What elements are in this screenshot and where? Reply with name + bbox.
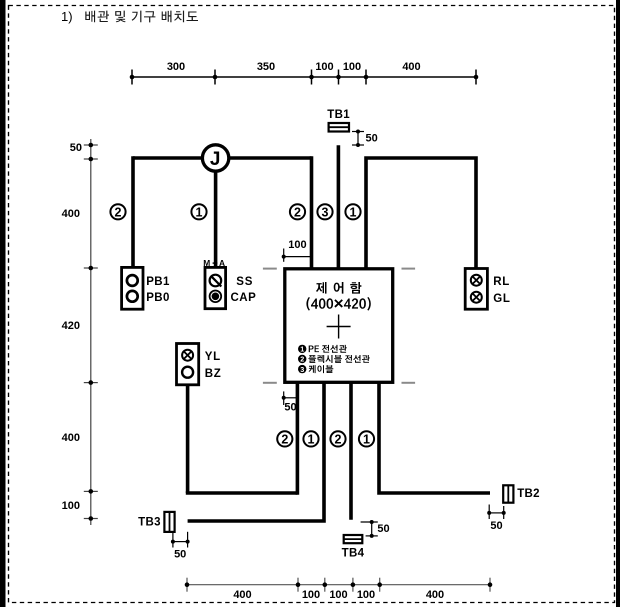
svg-text:SS: SS [236, 276, 253, 288]
svg-text:100: 100 [343, 61, 361, 73]
svg-text:50: 50 [366, 133, 378, 145]
terminal block TB4 [344, 535, 363, 543]
wire right conduit from box up and to RL box [366, 158, 476, 269]
svg-text:100: 100 [288, 239, 306, 251]
label TB4 [342, 548, 365, 560]
svg-text:100: 100 [329, 589, 347, 601]
svg-text:50: 50 [284, 402, 296, 414]
svg-text:1: 1 [363, 432, 370, 446]
svg-text:50: 50 [70, 142, 82, 154]
label BZ [205, 368, 222, 380]
wire conduit 2 from control box bottom to TB4 [349, 382, 353, 520]
svg-text:M: M [203, 258, 210, 268]
control box 제어함 [285, 269, 393, 383]
svg-text:2: 2 [335, 432, 342, 446]
svg-text:300: 300 [167, 61, 185, 73]
conduit label 2 (bottom wire to TB4) [330, 431, 345, 446]
dimension 50 at TB3 [171, 532, 190, 561]
svg-text:50: 50 [174, 549, 186, 561]
svg-text:GL: GL [493, 293, 510, 305]
svg-text:BZ: BZ [205, 368, 222, 380]
svg-text:CAP: CAP [231, 292, 257, 304]
label PB0 [146, 292, 170, 304]
title text [61, 9, 198, 24]
svg-text:400: 400 [62, 208, 80, 220]
svg-text:TB1: TB1 [327, 109, 350, 121]
pushbutton station PB1/PB0 [122, 267, 143, 309]
svg-text:A: A [219, 258, 225, 268]
label TB3 [138, 517, 161, 529]
svg-text:2: 2 [300, 355, 304, 364]
svg-text:J: J [210, 149, 221, 170]
svg-text:400: 400 [402, 61, 420, 73]
label M (selector position) [203, 258, 210, 268]
label SS [236, 276, 253, 288]
svg-text:100: 100 [62, 500, 80, 512]
junction box J [202, 145, 228, 171]
wire 2 vertical into control box top [310, 156, 314, 269]
dimension 50 at TB1 [352, 130, 378, 148]
wire conduit 1 from control box bottom to TB3 run [188, 382, 324, 523]
wire YL/BZ drop [186, 385, 190, 493]
label CAP [231, 292, 257, 304]
svg-text:100: 100 [302, 589, 320, 601]
bottom dimension line [187, 578, 490, 592]
label A (selector position) [219, 258, 225, 268]
left dimension line [84, 139, 98, 525]
label RL [493, 276, 510, 288]
conduit label 2 (wire into box top) [290, 204, 305, 219]
legend item 3: cable [298, 365, 333, 374]
svg-text:1: 1 [350, 205, 357, 219]
svg-text:420: 420 [62, 320, 80, 332]
label PB1 [146, 276, 170, 288]
selector arrow tick between M and A [213, 262, 218, 264]
svg-text:1: 1 [300, 345, 304, 354]
wire TB1 cable into control box [337, 145, 341, 269]
svg-text:2: 2 [294, 205, 301, 219]
wire bottom-left horizontal to YL/BZ [186, 491, 298, 495]
wire from J down to SS box [214, 158, 218, 267]
center cross mark [327, 315, 351, 339]
wire top horizontal left [133, 156, 312, 160]
svg-text:100: 100 [357, 589, 375, 601]
conduit label 3 (TB1 cable) [317, 204, 332, 219]
label TB1 [327, 109, 350, 121]
svg-text:400: 400 [62, 432, 80, 444]
svg-text:YL: YL [205, 351, 221, 363]
svg-text:TB3: TB3 [138, 517, 161, 529]
svg-text:2: 2 [281, 432, 288, 446]
left page edge bar [0, 0, 6, 607]
dimension 50 at TB4 [361, 520, 390, 538]
svg-text:TB2: TB2 [517, 488, 540, 500]
svg-text:400: 400 [233, 589, 251, 601]
svg-text:PB0: PB0 [146, 292, 170, 304]
extension dash left of box bottom [263, 382, 277, 384]
terminal block TB2 [503, 485, 513, 502]
svg-text:RL: RL [493, 276, 510, 288]
top dimension line [132, 70, 476, 85]
label GL [493, 293, 510, 305]
conduit label 1 (bottom wire to TB3) [303, 431, 318, 446]
svg-text:3: 3 [300, 365, 304, 374]
svg-text:1: 1 [196, 205, 203, 219]
svg-text:3: 3 [322, 205, 329, 219]
extension dash right of box top [402, 268, 416, 270]
lamp station RL/GL [465, 269, 487, 310]
wire left vertical to PB box [131, 156, 135, 267]
svg-text:50: 50 [490, 520, 502, 532]
top dimension labels [167, 61, 421, 73]
svg-text:1: 1 [308, 432, 315, 446]
legend item 1: PE conduit [298, 345, 347, 354]
lamp/buzzer station YL/BZ [177, 344, 199, 385]
svg-text:TB4: TB4 [342, 548, 365, 560]
legend item 2: flexible conduit [298, 355, 370, 364]
svg-text:2: 2 [115, 205, 122, 219]
conduit label 1 (right wire) [345, 204, 360, 219]
extension dash left of box top [263, 268, 277, 270]
dimension 50 at control box bottom-left [282, 391, 298, 413]
label YL [205, 351, 221, 363]
svg-text:1): 1) [61, 9, 73, 24]
conduit label 1 (bottom wire to TB2) [359, 431, 374, 446]
svg-text:50: 50 [377, 523, 389, 535]
dimension 100 at control box top-left [282, 239, 312, 262]
svg-text:100: 100 [315, 61, 333, 73]
extension dash right of box bottom [402, 382, 416, 384]
dimension 50 at TB2 [487, 505, 506, 533]
left dimension labels [62, 142, 82, 512]
conduit label 1 (J wire) [191, 204, 206, 219]
conduit label 2 (bottom wire to YL/BZ) [277, 431, 292, 446]
terminal block TB3 [164, 512, 174, 532]
right page edge bar [616, 0, 620, 607]
svg-text:PB1: PB1 [146, 276, 170, 288]
wire conduit 1 from control box bottom to TB2 [377, 382, 490, 493]
terminal block TB1 [329, 123, 349, 132]
label TB2 [517, 488, 540, 500]
svg-text:350: 350 [257, 61, 275, 73]
wire conduit 2 from control box bottom to YL/BZ run [296, 382, 300, 495]
svg-text:400: 400 [426, 589, 444, 601]
conduit label 2 (left wire) [110, 204, 125, 219]
selector/capacitor station SS/CAP [205, 267, 226, 308]
bottom dimension labels [233, 589, 444, 601]
